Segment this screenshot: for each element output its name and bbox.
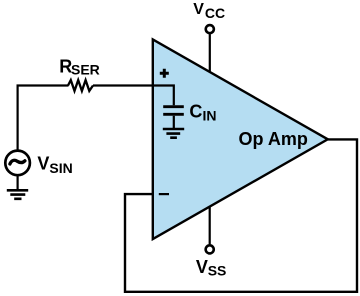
svg-text:CC: CC [205, 5, 225, 21]
source label V_SIN [37, 154, 72, 177]
svg-text:SIN: SIN [49, 160, 72, 176]
VCC terminal circle [206, 25, 214, 33]
wire from resistor to + input and capacitor [93, 86, 174, 106]
svg-text:Op Amp: Op Amp [239, 129, 308, 149]
ground below source [7, 190, 28, 199]
op-amp - input pin marker [159, 193, 169, 195]
wire from source to ground [17, 175, 19, 189]
source VSIN [5, 151, 30, 176]
svg-text:V: V [37, 154, 49, 174]
wire op-amp to VSS [209, 206, 211, 244]
op-amp + input pin marker [160, 69, 169, 78]
op-amp label Op Amp [239, 129, 308, 149]
VSS label [196, 257, 226, 278]
capacitor label C_IN [189, 101, 216, 123]
svg-text:SER: SER [71, 62, 100, 78]
svg-text:IN: IN [203, 107, 217, 123]
ground below capacitor [163, 129, 184, 138]
resistor R_SER [68, 80, 93, 91]
resistor label R_SER [59, 57, 99, 78]
capacitor C_IN [163, 107, 184, 128]
VSS terminal circle [206, 245, 214, 253]
op-amp U1 [153, 40, 328, 240]
wire VCC to op-amp [209, 34, 211, 72]
svg-text:C: C [189, 101, 202, 121]
VCC label [193, 1, 225, 21]
svg-text:SS: SS [208, 262, 227, 278]
svg-text:V: V [196, 257, 208, 277]
wire from source VSIN up and right to resistor [18, 86, 69, 151]
output feedback wire from apex around to - input [125, 139, 357, 291]
svg-text:V: V [193, 1, 204, 18]
